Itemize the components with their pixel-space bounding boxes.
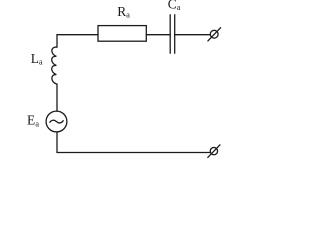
wire top-left corner <box>57 35 98 47</box>
svg-text:Ra: Ra <box>117 4 130 20</box>
terminal bottom circle <box>210 147 217 154</box>
terminal bottom slash <box>208 145 220 158</box>
resistor Ra <box>98 26 146 42</box>
inductor La coil <box>52 47 57 84</box>
wire inductor to source <box>56 84 58 111</box>
wire source to bottom corner <box>57 132 210 153</box>
terminal top slash <box>208 28 221 41</box>
capacitor Ca plate left <box>169 15 171 53</box>
wire capacitor to top terminal <box>175 34 211 36</box>
svg-text:Ea: Ea <box>27 113 39 129</box>
capacitor Ca plate right <box>174 15 176 53</box>
terminal top circle <box>210 30 218 38</box>
source sine symbol <box>50 120 63 123</box>
svg-text:Ca: Ca <box>168 0 181 12</box>
svg-text:La: La <box>31 51 43 67</box>
source Ea circle <box>46 111 67 132</box>
wire resistor to capacitor <box>146 34 170 36</box>
